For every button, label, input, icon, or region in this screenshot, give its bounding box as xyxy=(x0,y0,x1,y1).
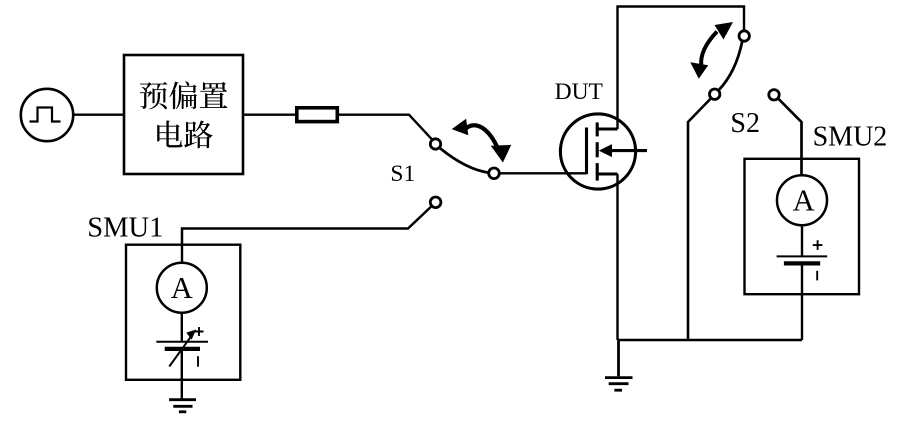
ground bus wire xyxy=(618,339,803,341)
switch S2 pole contact xyxy=(739,31,749,41)
svg-text:DUT: DUT xyxy=(555,79,603,105)
switch S1 actuation arrow xyxy=(452,119,512,163)
svg-text:A: A xyxy=(793,183,815,217)
wire battery SMU2 down to ground bus xyxy=(801,266,803,341)
switch S1 blade xyxy=(440,148,488,172)
ground main xyxy=(605,340,633,390)
wire ammeter to battery SMU2 xyxy=(801,225,803,256)
svg-text:S1: S1 xyxy=(390,161,415,187)
pre-bias circuit block xyxy=(124,55,243,174)
wire S1 throw to SMU1 top xyxy=(182,206,431,245)
wire S2 left throw down to ground bus xyxy=(688,98,711,340)
switch S1 throw contact to SMU1 xyxy=(430,197,441,208)
wire S1 throw to DUT gate xyxy=(500,172,587,174)
mosfet DUT xyxy=(560,114,647,189)
variable source SMU1 xyxy=(156,327,208,367)
pulse generator source xyxy=(21,89,73,141)
ammeter A SMU1 xyxy=(157,263,207,313)
svg-text:SMU1: SMU1 xyxy=(87,212,163,243)
svg-text:SMU2: SMU2 xyxy=(813,122,888,153)
switch S1 throw contact to DUT gate xyxy=(489,168,500,179)
wire pre-bias box to resistor xyxy=(243,113,295,115)
wire DUT drain to top rail and down to switch S2 xyxy=(618,7,745,130)
wire S2 right contact down into SMU2 xyxy=(778,99,801,176)
wire DUT source down to ground bus xyxy=(616,174,618,340)
wire ammeter to variable source SMU1 xyxy=(181,313,183,342)
SMU2 box xyxy=(745,159,860,294)
switch S1 pole contact xyxy=(430,139,440,149)
ground SMU1 xyxy=(169,400,196,412)
wire variable source down to ground SMU1 xyxy=(181,351,183,399)
switch S2 blade xyxy=(719,41,743,90)
svg-text:S2: S2 xyxy=(730,108,760,139)
switch S2 contact to SMU2 xyxy=(769,90,779,100)
svg-text:A: A xyxy=(171,271,193,305)
wire into SMU1 ammeter xyxy=(181,245,183,263)
label 预偏置电路 xyxy=(140,81,228,148)
switch S2 actuation arrow xyxy=(690,22,733,79)
resistor xyxy=(297,108,338,122)
switch S2 throw contact left xyxy=(710,89,720,99)
battery SMU2 xyxy=(777,240,828,280)
wire pulse source to pre-bias box xyxy=(73,113,124,115)
wire resistor to switch S1 pole xyxy=(339,115,432,140)
SMU1 box xyxy=(126,245,240,380)
ammeter A SMU2 xyxy=(777,175,827,225)
